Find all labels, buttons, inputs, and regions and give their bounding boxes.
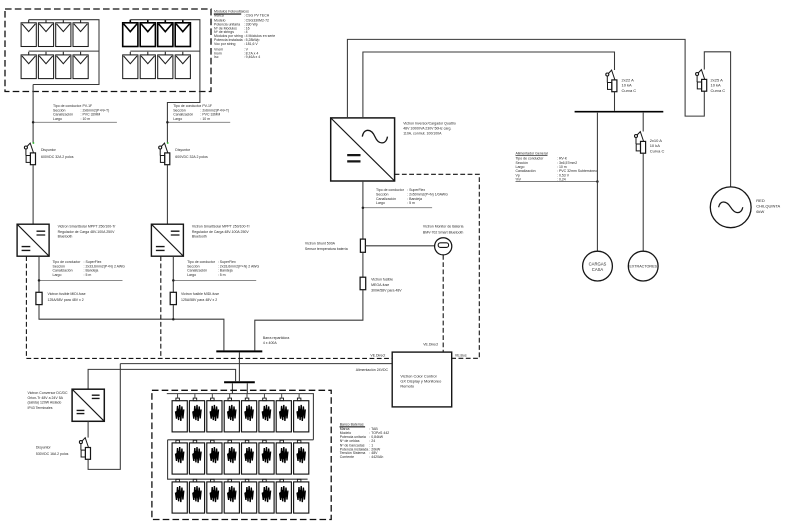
- wire VE.Bus inverter to GX (dashed): [395, 174, 480, 358]
- wire breaker2 to MPPT2: [166, 165, 168, 225]
- svg-text:Curva C: Curva C: [622, 88, 637, 93]
- svg-text:Remoto: Remoto: [400, 384, 414, 389]
- wire battery busbar taps: [232, 383, 247, 393]
- wire VE.Direct BMV to GX (dashed): [442, 255, 444, 352]
- svg-text:Victron SmartSolar MPPT 250/10: Victron SmartSolar MPPT 250/100-Tr: [192, 225, 251, 229]
- svg-text:: 5 m: : 5 m: [218, 273, 226, 277]
- svg-text:Largo: Largo: [53, 117, 62, 121]
- breaker disyuntor 600VDC branch2: [159, 143, 170, 165]
- DC busbar barra repartidora: [216, 350, 262, 352]
- svg-text:VE.Bus: VE.Bus: [455, 354, 467, 358]
- shunt Victron 500A: [360, 239, 365, 252]
- label breaker 2x10A: [650, 138, 665, 153]
- wire PV group1 output drop: [32, 85, 34, 144]
- label feeder Alimentador General: [516, 151, 548, 155]
- svg-text:CARGAS: CARGAS: [589, 262, 607, 267]
- svg-text:CHILQUINTA: CHILQUINTA: [756, 204, 780, 209]
- battery cell 10: [189, 440, 204, 474]
- svg-text:Nº de celdas: Nº de celdas: [340, 439, 360, 443]
- label wire SuperFlex branch1: [53, 260, 126, 277]
- label MPPT2: [192, 225, 251, 239]
- svg-text:VE.Direct: VE.Direct: [423, 342, 438, 346]
- svg-text:Voc por string: Voc por string: [214, 42, 235, 46]
- svg-text:Regulador de Carga 48V-100A 25: Regulador de Carga 48V-100A 250V: [192, 230, 249, 234]
- svg-text:CASA: CASA: [592, 267, 604, 272]
- battery cell 6: [259, 398, 274, 432]
- svg-text:BMV-702 Smart Bluetooth: BMV-702 Smart Bluetooth: [423, 231, 464, 235]
- label fuse MIDI branch1: [48, 292, 86, 302]
- svg-text:Bluetooth: Bluetooth: [192, 234, 207, 238]
- svg-text:Victron Shunt 500A: Victron Shunt 500A: [305, 241, 336, 245]
- battery cell 15: [276, 440, 291, 474]
- battery cell 5: [242, 398, 257, 432]
- svg-text:Largo: Largo: [376, 201, 385, 205]
- PV module string4 panel 3: [158, 52, 173, 79]
- wire Orion output to breaker: [87, 421, 89, 437]
- wire breaker to extractors: [642, 153, 644, 251]
- battery cell 11: [207, 440, 222, 474]
- node branch2 label tap: [166, 121, 169, 124]
- svg-text:(salida) 120W Aislado: (salida) 120W Aislado: [28, 401, 62, 405]
- svg-text:Orion-Tr 48V a 24V 5A: Orion-Tr 48V a 24V 5A: [28, 396, 64, 400]
- PV module string1 panel 2: [38, 20, 53, 47]
- svg-text:Sensor temperatura batería: Sensor temperatura batería: [305, 247, 348, 251]
- svg-text:Corriente: Corriente: [340, 455, 354, 459]
- svg-text:: CSG PV TECH: : CSG PV TECH: [244, 13, 270, 17]
- battery cell 1: [172, 398, 187, 432]
- label PV modules spec block: [214, 10, 275, 60]
- label shunt: [305, 241, 348, 251]
- svg-text:IP43 Terminales: IP43 Terminales: [28, 406, 53, 410]
- wire PV string2 bus: [29, 50, 99, 52]
- PV module string1 panel 3: [56, 20, 71, 47]
- breaker 2x25A grid: [696, 70, 707, 92]
- wire PV string3 top bus: [130, 20, 200, 143]
- label separator branch2 conductor: [167, 121, 230, 123]
- battery cell 23: [276, 479, 291, 513]
- svg-text:530VDC 16A 2 polos: 530VDC 16A 2 polos: [36, 452, 69, 456]
- wire branch2 join: [172, 305, 174, 320]
- battery cell 4: [224, 398, 239, 432]
- PV module string1 panel 1: [21, 20, 36, 47]
- node branch junction: [172, 318, 175, 321]
- label fuse MEGA: [371, 278, 402, 293]
- wire MPPT1 positive output: [38, 256, 40, 292]
- wire breaker1 to MPPT1: [32, 165, 34, 225]
- svg-text:10 kA: 10 kA: [650, 143, 661, 148]
- battery cell 8: [294, 398, 309, 432]
- battery monitor BMV-702: [435, 238, 452, 255]
- label wire SuperFlex inverter: [376, 188, 448, 205]
- wire battery row1 bus: [167, 394, 314, 440]
- label inverter: [403, 122, 456, 136]
- label DC busbar: [263, 336, 290, 345]
- wire shunt to battery monitor: [365, 245, 434, 247]
- battery cell 19: [207, 479, 222, 513]
- battery cell 2: [189, 398, 204, 432]
- svg-text:: 5 m: : 5 m: [407, 201, 415, 205]
- svg-text:Isc: Isc: [214, 55, 219, 59]
- svg-text:Barra repartidora: Barra repartidora: [263, 336, 290, 340]
- label wire SuperFlex branch2: [187, 260, 259, 277]
- node branch2 superflex tap: [172, 279, 175, 282]
- svg-text:Alimentador General: Alimentador General: [516, 151, 548, 155]
- PV module string1 panel 4: [73, 20, 88, 47]
- svg-text:Disyuntor: Disyuntor: [41, 148, 57, 152]
- PV module string3 panel 4: [175, 20, 190, 47]
- converter Orion DC/DC: [72, 389, 104, 421]
- svg-text:10 kA: 10 kA: [711, 82, 722, 87]
- svg-text:: 0,24: : 0,24: [557, 178, 566, 182]
- PV module string4 panel 2: [140, 52, 155, 79]
- wire inverter AC-out to loads breaker: [363, 52, 615, 118]
- svg-text:MEGA-fuse: MEGA-fuse: [371, 283, 389, 287]
- wire battery row2 bus: [168, 440, 314, 479]
- label wire conductor PV-1F branch1: [53, 104, 109, 121]
- label battery bank spec block: [340, 422, 364, 426]
- PV module string3 panel 2: [140, 20, 155, 47]
- svg-text:10 kA: 10 kA: [622, 82, 633, 87]
- svg-text:Victron fusible: Victron fusible: [371, 278, 393, 282]
- wire VE.Direct MPPT2 (dashed): [160, 256, 162, 358]
- label wire conductor PV-1F branch2: [173, 104, 229, 121]
- label breaker Orion: [36, 445, 69, 456]
- label utility grid: [756, 198, 780, 214]
- battery cell 3: [207, 398, 222, 432]
- wire breaker to AC busbar: [614, 92, 616, 111]
- svg-text:Victron Inversor/Cargador Quat: Victron Inversor/Cargador Quattro: [403, 122, 456, 126]
- breaker 2x10A extractors: [635, 132, 646, 154]
- svg-text:Victron SmartSolar MPPT 250/10: Victron SmartSolar MPPT 250/100-Tr: [58, 225, 117, 229]
- green terminal marker breaker2: [167, 142, 169, 144]
- label MPPT1: [58, 225, 117, 239]
- svg-text:Disyuntor: Disyuntor: [175, 148, 191, 152]
- battery cell 16: [294, 440, 309, 474]
- battery bank dashed enclosure: [152, 390, 331, 519]
- svg-text:Curva C: Curva C: [711, 88, 726, 93]
- node branch1 label tap: [32, 121, 35, 124]
- svg-text:: 9,46A x 4: : 9,46A x 4: [244, 55, 261, 59]
- fuse MIDI branch1: [36, 292, 42, 304]
- load EXTRACTORES: [628, 251, 658, 281]
- label breaker branch1: [41, 148, 74, 159]
- battery cell 14: [259, 440, 274, 474]
- wire inverter DC negative drop: [362, 181, 364, 239]
- wire busbar to extractors breaker: [642, 113, 644, 132]
- label separator inverter superflex: [363, 207, 432, 209]
- battery cell 20: [224, 479, 239, 513]
- PV module string3 panel 1: [123, 20, 138, 47]
- wire MEGA fuse to DC busbar: [255, 290, 363, 351]
- wire DC busbar to battery busbar: [238, 352, 240, 381]
- svg-text:: 10 m: : 10 m: [81, 117, 91, 121]
- wire PV string1 top bus: [29, 20, 99, 85]
- wire busbar to house loads: [596, 113, 598, 252]
- load CARGAS CASA: [583, 251, 613, 281]
- svg-text:125A/58V para 48V x 2: 125A/58V para 48V x 2: [48, 298, 84, 302]
- svg-text:Victron fusible MIDI-fuse: Victron fusible MIDI-fuse: [181, 292, 219, 296]
- svg-text:48V 10000VA 230V 50Hz carg.: 48V 10000VA 230V 50Hz carg.: [403, 127, 451, 131]
- svg-text:EXTRACTORES: EXTRACTORES: [629, 264, 657, 268]
- PV array dashed enclosure: [5, 9, 211, 92]
- AC distribution busbar: [575, 111, 664, 113]
- PV module string2 panel 3: [56, 52, 71, 79]
- wire VE.Direct bus to GX (dashed): [26, 357, 392, 359]
- svg-text:Alimentación 24VDC: Alimentación 24VDC: [356, 368, 389, 372]
- node inverter superflex tap: [362, 206, 365, 209]
- wire battery row1 cell taps: [178, 394, 300, 399]
- svg-text:: 181,6 V: : 181,6 V: [244, 42, 259, 46]
- label Orion converter: [28, 391, 68, 410]
- monitor Color Control GX: [392, 352, 452, 407]
- battery cell 7: [276, 398, 291, 432]
- charge controller MPPT1: [17, 224, 49, 256]
- inverter charger Quattro: [331, 118, 395, 181]
- svg-text:RED: RED: [756, 198, 765, 203]
- green terminal marker breaker1: [33, 142, 35, 144]
- battery cell 21: [242, 479, 257, 513]
- wire grid breaker to utility: [704, 52, 730, 187]
- utility source RED CHILQUINTA: [710, 187, 751, 228]
- label separator branch1 superflex: [39, 279, 123, 281]
- label separator branch2 superflex: [173, 279, 256, 281]
- svg-text:600VDC 32A 2 polos: 600VDC 32A 2 polos: [175, 155, 208, 159]
- label breaker branch2: [175, 148, 208, 159]
- PV module string3 panel 3: [158, 20, 173, 47]
- svg-text:Largo: Largo: [187, 273, 196, 277]
- svg-text:Disyuntor: Disyuntor: [36, 445, 52, 449]
- battery cell 18: [189, 479, 204, 513]
- svg-text:Victron Monitor de Batería: Victron Monitor de Batería: [423, 224, 464, 228]
- label fuse MIDI branch2: [181, 292, 219, 302]
- svg-text:600VDC 32A 2 polos: 600VDC 32A 2 polos: [41, 155, 74, 159]
- charge controller MPPT2: [151, 224, 183, 256]
- battery cell 24: [294, 479, 309, 513]
- wire branch1 to DC busbar: [39, 305, 224, 351]
- wire Orion breaker to 24VDC line: [88, 364, 120, 470]
- PV module string2 panel 4: [73, 52, 88, 79]
- svg-text:: 10 m: : 10 m: [200, 117, 210, 121]
- svg-text:VE.Direct: VE.Direct: [370, 354, 385, 358]
- battery cell 17: [172, 479, 187, 513]
- wire inverter AC-in to grid breaker: [347, 39, 704, 118]
- battery busbar: [224, 381, 255, 383]
- battery cell 9: [172, 440, 187, 474]
- PV module string2 panel 1: [21, 52, 36, 79]
- battery cell 22: [259, 479, 274, 513]
- svg-text:Marca: Marca: [214, 13, 224, 17]
- svg-text:: 4420Ah: : 4420Ah: [369, 455, 383, 459]
- node feeder tap: [596, 180, 599, 183]
- PV module string2 panel 2: [38, 52, 53, 79]
- label breaker 2x22A: [622, 77, 637, 93]
- label breaker 2x25A: [711, 77, 726, 93]
- svg-text:Bluetooth: Bluetooth: [58, 234, 73, 238]
- battery cell 13: [242, 440, 257, 474]
- label battery monitor: [423, 224, 464, 234]
- breaker disyuntor Orion: [79, 438, 90, 460]
- battery cell 12: [224, 440, 239, 474]
- wire shunt to MEGA fuse: [362, 252, 364, 277]
- wire battery busbar to Orion input: [88, 369, 236, 389]
- wire PV string4 bus: [130, 50, 200, 52]
- label separator feeder: [516, 181, 598, 183]
- breaker 2x22A loads: [606, 70, 617, 92]
- svg-text:Banco Baterías: Banco Baterías: [340, 422, 364, 426]
- wire MPPT2 positive output: [172, 256, 174, 292]
- svg-text:Curva C: Curva C: [650, 148, 665, 153]
- wire 24VDC supply to GX: [120, 363, 392, 365]
- svg-text:: 5 m: : 5 m: [84, 273, 92, 277]
- svg-text:125A/58V para 48V x 2: 125A/58V para 48V x 2: [181, 298, 217, 302]
- wire VE.Direct MPPT1 (dashed): [25, 256, 27, 358]
- svg-text:110A, conmut. 100/100A: 110A, conmut. 100/100A: [403, 131, 442, 135]
- svg-text:6kW: 6kW: [756, 209, 764, 214]
- PV module string4 panel 4: [175, 52, 190, 79]
- svg-text:: 24: : 24: [369, 439, 375, 443]
- svg-text:Largo: Largo: [173, 117, 182, 121]
- fuse MEGA: [360, 277, 366, 290]
- svg-text:Regulador de Carga 48V-100A 25: Regulador de Carga 48V-100A 250V: [58, 230, 115, 234]
- svg-text:4 x 400A: 4 x 400A: [263, 341, 277, 345]
- breaker disyuntor 600VDC branch1: [24, 143, 35, 165]
- svg-text:Largo: Largo: [53, 273, 62, 277]
- svg-text:%V: %V: [516, 178, 522, 182]
- PV module string4 panel 1: [123, 52, 138, 79]
- svg-text:300A/58V para 48V: 300A/58V para 48V: [371, 289, 402, 293]
- node branch1 superflex tap: [38, 279, 41, 282]
- label separator branch1 conductor: [33, 121, 117, 123]
- svg-text:Victron fusible MIDI-fuse: Victron fusible MIDI-fuse: [48, 292, 86, 296]
- fuse MIDI branch2: [170, 292, 176, 304]
- svg-text:Victron Conversor DC/DC: Victron Conversor DC/DC: [28, 391, 68, 395]
